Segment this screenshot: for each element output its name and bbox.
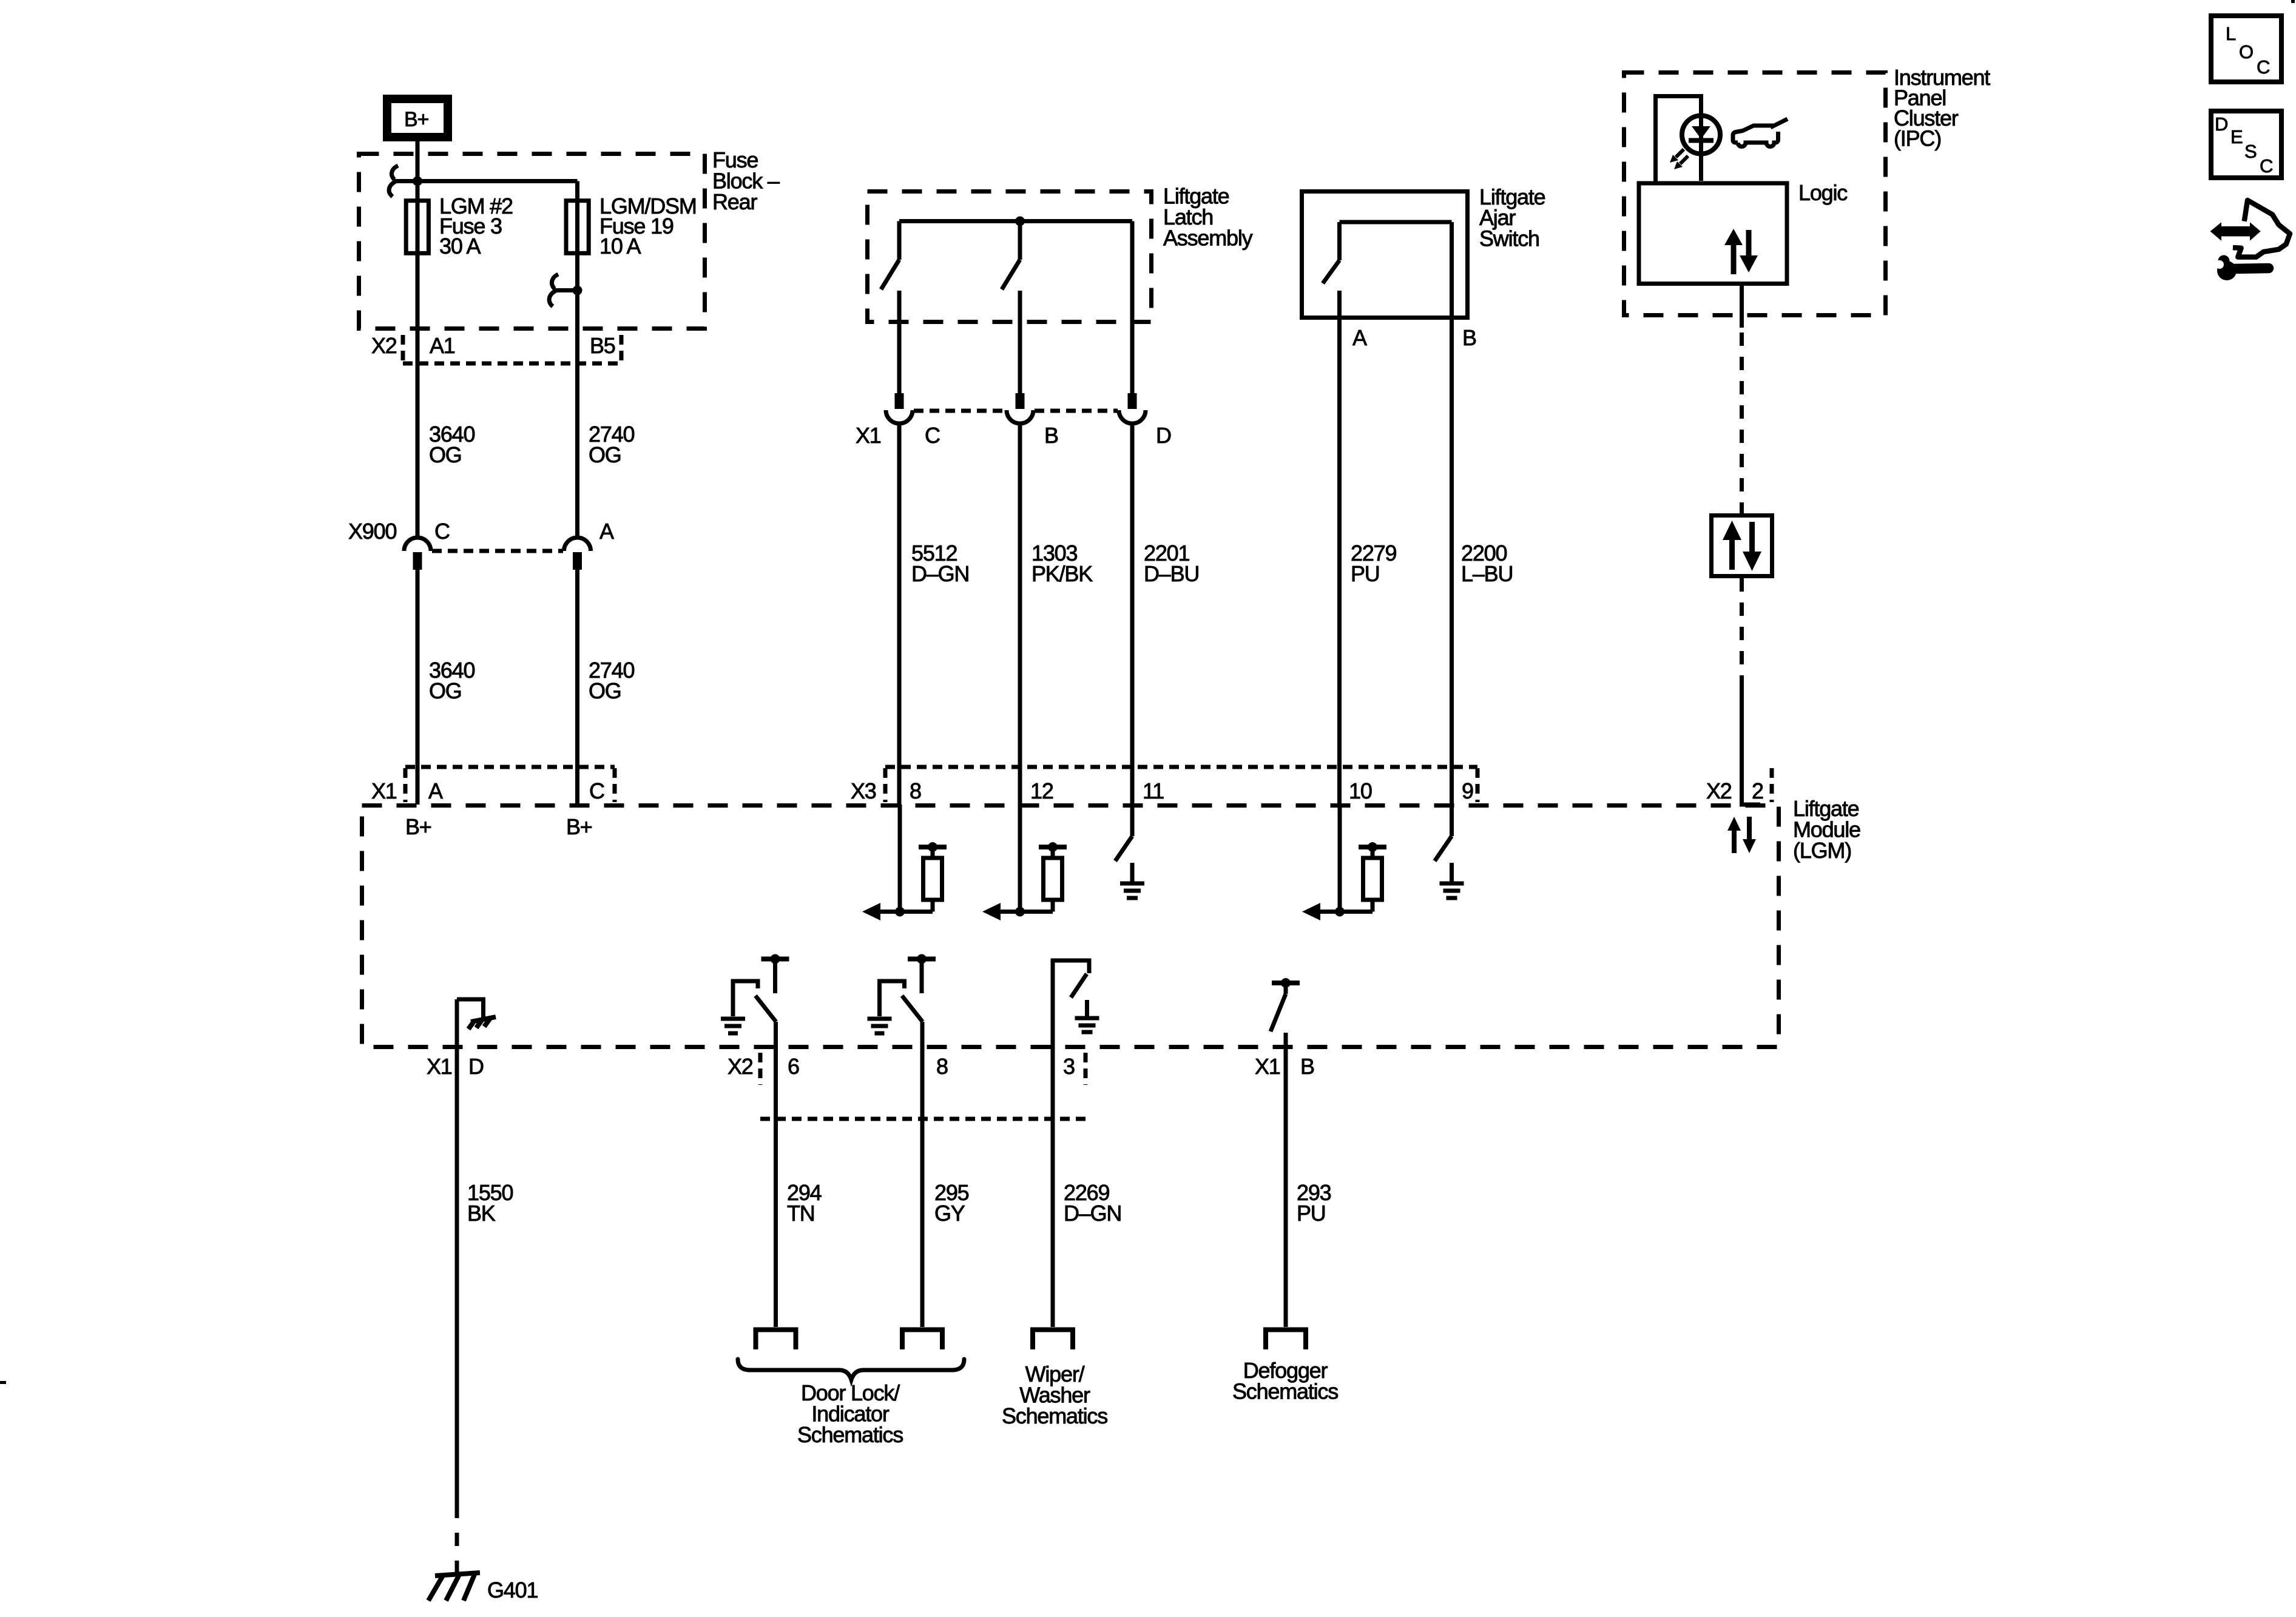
svg-text:11: 11 xyxy=(1143,778,1164,803)
svg-text:B+: B+ xyxy=(404,108,428,131)
svg-text:PK/BK: PK/BK xyxy=(1032,561,1093,586)
serial data arrows inside LGM xyxy=(1727,817,1756,853)
splice hook at junction 1 xyxy=(389,166,417,197)
svg-text:G401: G401 xyxy=(487,1578,538,1602)
switch at pin X1 B defogger xyxy=(1271,978,1300,1048)
DESC reference box xyxy=(2211,111,2281,178)
Liftgate Ajar Switch box xyxy=(1302,184,1545,318)
page artifact dot top right xyxy=(2291,0,2295,3)
wire label 3640 OG lower xyxy=(429,658,474,703)
connector X900 pins C and A xyxy=(348,519,614,570)
svg-text:D: D xyxy=(468,1054,484,1079)
wire label 2269 D-GN xyxy=(1064,1180,1121,1226)
svg-text:Switch: Switch xyxy=(1479,226,1539,251)
pin label X1 D xyxy=(427,1054,484,1079)
connector repair icon xyxy=(2210,200,2290,280)
wire latch internal bus xyxy=(899,219,1132,223)
serial data symbol box xyxy=(1712,516,1772,576)
label Wiper Washer Schematics xyxy=(1002,1362,1107,1428)
svg-text:(LGM): (LGM) xyxy=(1793,838,1851,863)
LED indicator lamp xyxy=(1682,113,1720,181)
Liftgate Latch Assembly dashed enclosure xyxy=(868,184,1253,322)
Logic box in IPC xyxy=(1639,180,1848,284)
svg-text:GY: GY xyxy=(934,1201,965,1226)
svg-text:BK: BK xyxy=(467,1201,496,1226)
node B+ label at pin C xyxy=(566,814,592,839)
switch latch middle xyxy=(1002,221,1020,394)
svg-text:D–GN: D–GN xyxy=(1064,1201,1121,1226)
wire pin 10 into LGM xyxy=(1338,805,1342,912)
wire 5512 latch C to LGM X3 8 xyxy=(897,424,902,805)
svg-text:B: B xyxy=(1044,423,1058,448)
wire label 2201 D-BU xyxy=(1144,541,1199,586)
label Defogger Schematics xyxy=(1232,1358,1338,1404)
svg-text:B: B xyxy=(1300,1054,1314,1079)
svg-text:A1: A1 xyxy=(430,333,455,358)
svg-text:D–GN: D–GN xyxy=(911,561,969,586)
wire X900 A to LGM X1 C xyxy=(575,570,579,805)
svg-text:6: 6 xyxy=(788,1054,799,1079)
svg-text:L: L xyxy=(2226,23,2236,44)
node junction latch bus xyxy=(1015,217,1025,226)
wire X900 C to LGM X1 A xyxy=(416,570,420,805)
svg-text:C: C xyxy=(589,778,604,803)
wire label 2740 OG lower xyxy=(589,658,634,703)
svg-text:OG: OG xyxy=(589,442,621,467)
wire 293 to defogger schematics xyxy=(1284,1048,1288,1327)
svg-text:PU: PU xyxy=(1351,561,1380,586)
wire ajar internal bus to B xyxy=(1340,220,1452,224)
switch to ground at pin X2 8 xyxy=(868,954,936,1034)
wire label 293 PU xyxy=(1297,1180,1331,1226)
internal ground at pin X1 D xyxy=(457,999,496,1048)
node B+ label at pin A xyxy=(405,814,431,839)
Fuse Block - Rear dashed enclosure xyxy=(359,147,780,329)
svg-text:B+: B+ xyxy=(566,814,592,839)
svg-text:Assembly: Assembly xyxy=(1163,226,1253,251)
off-page terminal for wire 2269 xyxy=(1033,1330,1073,1350)
svg-text:X2: X2 xyxy=(371,333,397,358)
wire 2269 to wiper washer schematics xyxy=(1051,1048,1055,1327)
fuse F1 LGM #2 Fuse 3 30 A xyxy=(406,194,513,258)
svg-text:B5: B5 xyxy=(590,333,615,358)
svg-text:Schematics: Schematics xyxy=(1232,1379,1338,1404)
wire pin 9 into LGM xyxy=(1450,805,1454,836)
svg-text:X1: X1 xyxy=(427,1054,452,1079)
svg-text:PU: PU xyxy=(1297,1201,1326,1226)
svg-text:X1: X1 xyxy=(856,423,881,448)
svg-text:S: S xyxy=(2244,141,2257,162)
pull-up with resistor and signal arrow at pin 8 xyxy=(862,842,947,920)
svg-text:10: 10 xyxy=(1349,778,1372,803)
wire 295 to door lock schematics xyxy=(920,1022,925,1327)
pin labels A B of ajar switch xyxy=(1352,325,1476,350)
serial data arrows inside logic box xyxy=(1724,229,1758,274)
wire bus from junction to fuse 19 column xyxy=(417,181,578,536)
wire 2200 ajar B to LGM X3 9 xyxy=(1450,222,1454,805)
liftgate open car icon xyxy=(1733,119,1788,147)
wire label 294 TN xyxy=(787,1180,822,1226)
svg-text:TN: TN xyxy=(787,1201,815,1226)
connector X1 latch: pins C B D xyxy=(856,393,1171,448)
connector X1 LGM top row: pins A C xyxy=(371,767,615,803)
fuse F2 LGM/DSM Fuse 19 10 A xyxy=(566,194,697,258)
svg-text:X1: X1 xyxy=(1255,1054,1280,1079)
wire label 1550 BK xyxy=(467,1180,513,1226)
label Door Lock Indicator Schematics xyxy=(797,1380,903,1447)
switch to ground at pin X2 3 xyxy=(1053,960,1099,1048)
svg-text:A: A xyxy=(1352,325,1367,350)
switch latch left (ajar switch contact) xyxy=(881,221,899,394)
svg-text:A: A xyxy=(428,778,443,803)
wire 1550 LGM D to G401 xyxy=(455,1048,459,1575)
wire from B+ to fuse LGM #2 and X900 C xyxy=(416,141,420,536)
svg-text:D–BU: D–BU xyxy=(1144,561,1199,586)
wire pin 12 into LGM xyxy=(1018,805,1022,912)
wire label 2740 OG upper xyxy=(589,422,634,467)
svg-text:10 A: 10 A xyxy=(599,234,641,258)
connector X2 fuse block row: pins A1 B5 xyxy=(371,333,621,363)
wire label 5512 D-GN xyxy=(911,541,969,586)
svg-text:A: A xyxy=(599,519,614,544)
svg-text:D: D xyxy=(1156,423,1171,448)
Liftgate Module dashed enclosure xyxy=(362,796,1861,1047)
ground G401 xyxy=(428,1573,538,1602)
connector X2 bottom row: pins 6 8 3 xyxy=(728,1053,1086,1119)
off-page terminal for wire 293 xyxy=(1266,1330,1306,1350)
wire logic box to IPC boundary xyxy=(1740,283,1744,317)
svg-text:X900: X900 xyxy=(348,519,396,544)
pull-up with resistor and signal arrow at pin 10 xyxy=(1302,842,1386,920)
wire label 295 GY xyxy=(934,1180,969,1226)
dashed wire IPC to serial data box xyxy=(1740,317,1744,513)
Instrument Panel Cluster dashed enclosure xyxy=(1624,65,1991,316)
wire label 1303 PK/BK xyxy=(1032,541,1093,586)
B+ power symbol xyxy=(387,99,448,137)
svg-text:OG: OG xyxy=(429,442,462,467)
svg-text:B: B xyxy=(1462,325,1476,350)
switch to ground at pin X2 6 xyxy=(721,954,789,1034)
svg-text:D: D xyxy=(2215,113,2228,135)
svg-text:30 A: 30 A xyxy=(439,234,481,258)
svg-text:C: C xyxy=(2257,56,2270,78)
wire 2201 latch D to LGM X3 11 xyxy=(1130,424,1135,805)
switch to ground at pin 9 xyxy=(1435,836,1464,898)
svg-text:C: C xyxy=(434,519,450,544)
page artifact dash left xyxy=(0,1381,6,1384)
svg-text:X2: X2 xyxy=(1706,778,1732,803)
wire 294 to door lock schematics xyxy=(774,1022,778,1327)
svg-text:E: E xyxy=(2230,126,2243,147)
wire label 2200 L-BU xyxy=(1461,541,1513,586)
wire 1303 latch B to LGM X3 12 xyxy=(1018,424,1022,805)
svg-text:9: 9 xyxy=(1462,778,1473,803)
wire 2279 ajar A to LGM X3 10 xyxy=(1337,291,1342,805)
svg-text:Schematics: Schematics xyxy=(1002,1403,1107,1428)
node junction at A1 wire xyxy=(413,177,422,186)
connector X2 pin 2 of LGM xyxy=(1706,768,1772,803)
svg-text:C: C xyxy=(2260,155,2273,177)
svg-text:O: O xyxy=(2239,41,2254,62)
svg-text:3: 3 xyxy=(1063,1054,1075,1079)
svg-text:Rear: Rear xyxy=(712,189,757,214)
dashed wire serial box to LGM X2 2 xyxy=(1740,578,1760,806)
svg-text:X3: X3 xyxy=(851,778,876,803)
switch ajar blade xyxy=(1323,222,1340,283)
svg-text:C: C xyxy=(925,423,940,448)
off-page terminal for wire 294 xyxy=(756,1330,796,1350)
LED light emission arrows xyxy=(1670,149,1688,169)
wire latch right branch xyxy=(1130,221,1135,394)
svg-text:X2: X2 xyxy=(728,1054,753,1079)
pin label X1 B xyxy=(1255,1054,1314,1079)
splice hook at junction 2 xyxy=(549,274,577,306)
svg-text:8: 8 xyxy=(910,778,921,803)
connector X3 pin row of LGM: pins 8 12 11 10 9 xyxy=(851,767,1477,803)
pull-up with resistor and signal arrow at pin 12 xyxy=(982,842,1067,920)
svg-text:(IPC): (IPC) xyxy=(1894,126,1941,151)
off-page terminal for wire 295 xyxy=(902,1330,942,1350)
svg-text:Logic: Logic xyxy=(1798,180,1848,205)
wire label 3640 OG upper xyxy=(429,422,474,467)
svg-text:2: 2 xyxy=(1752,778,1763,803)
svg-text:OG: OG xyxy=(589,678,621,703)
svg-text:L–BU: L–BU xyxy=(1461,561,1513,586)
svg-text:OG: OG xyxy=(429,678,462,703)
brace for door lock wires xyxy=(738,1359,964,1380)
node junction below fuse 19 xyxy=(573,286,582,295)
svg-text:X1: X1 xyxy=(371,778,397,803)
wire pin 8 into LGM xyxy=(898,805,902,912)
svg-text:Schematics: Schematics xyxy=(797,1422,903,1447)
svg-text:B+: B+ xyxy=(405,814,431,839)
LOC reference box xyxy=(2211,16,2281,82)
wire label 2279 PU xyxy=(1351,541,1396,586)
svg-text:8: 8 xyxy=(936,1054,948,1079)
switch to ground at pin 11 xyxy=(1115,836,1144,898)
wire pin 11 into LGM xyxy=(1130,805,1135,836)
indicator frame in IPC xyxy=(1656,96,1701,183)
svg-text:12: 12 xyxy=(1030,778,1053,803)
